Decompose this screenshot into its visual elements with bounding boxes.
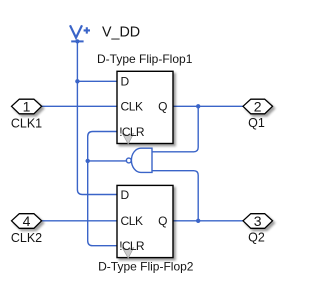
svg-text:CLK2: CLK2 (11, 231, 42, 245)
svg-text:3: 3 (254, 213, 262, 229)
svg-text:2: 2 (254, 98, 262, 114)
svg-text:CLK: CLK (121, 100, 144, 114)
svg-text:Q: Q (158, 100, 167, 114)
svg-text:CLK1: CLK1 (11, 116, 42, 130)
svg-text:Q1: Q1 (248, 116, 265, 130)
svg-text:Q2: Q2 (248, 231, 265, 245)
svg-text:!CLR: !CLR (119, 239, 145, 253)
svg-text:D: D (121, 188, 130, 202)
svg-text:V_DD: V_DD (102, 25, 140, 41)
svg-text:4: 4 (23, 213, 31, 229)
svg-text:D-Type Flip-Flop2: D-Type Flip-Flop2 (98, 260, 194, 274)
svg-text:!CLR: !CLR (119, 125, 145, 139)
svg-text:D-Type Flip-Flop1: D-Type Flip-Flop1 (97, 52, 193, 66)
svg-text:D: D (121, 75, 130, 89)
svg-text:1: 1 (23, 98, 31, 114)
svg-text:Q: Q (158, 214, 167, 228)
svg-text:CLK: CLK (121, 214, 144, 228)
